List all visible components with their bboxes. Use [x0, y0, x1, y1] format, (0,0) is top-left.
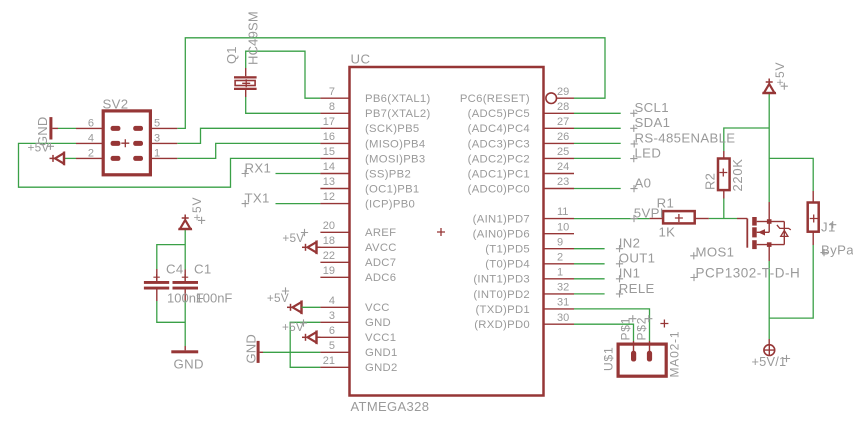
wire net RS-485ENABLE from IC pin26: [574, 142, 621, 144]
IC left pin 13 (OC1)PB1: [320, 188, 349, 190]
svg-text:2: 2: [557, 251, 563, 263]
svg-text:AVCC: AVCC: [365, 242, 397, 254]
svg-text:11: 11: [557, 206, 568, 218]
svg-text:SCL1: SCL1: [635, 100, 669, 115]
svg-text:(ADC1)PC1: (ADC1)PC1: [468, 168, 530, 180]
IC right pin 10 (AIN0)PD6: [544, 233, 575, 235]
svg-text:RELE: RELE: [619, 281, 655, 296]
svg-text:OUT1: OUT1: [619, 251, 656, 266]
svg-text:RS-485ENABLE: RS-485ENABLE: [635, 130, 736, 145]
svg-text:C1: C1: [194, 262, 212, 277]
svg-text:5: 5: [329, 340, 335, 352]
svg-text:ATMEGA328: ATMEGA328: [351, 399, 430, 414]
IC left pin 19 ADC6: [320, 276, 349, 278]
wire net MOSI: SV2 pin4 to IC pin15: [19, 143, 321, 187]
wire net IC pin31 to U$1 P$2: [574, 309, 650, 341]
supply +5V arrow (SV2 pin2): [50, 152, 65, 166]
svg-text:U$1: U$1: [602, 347, 616, 371]
node label 5VPI: [630, 206, 663, 223]
IC right pin 1 (INT1)PD3: [544, 278, 575, 280]
jumper J1 (bypass): [808, 191, 819, 245]
svg-text:ByPass: ByPass: [821, 243, 853, 258]
wire net OUT1 from IC pin2: [574, 263, 605, 265]
svg-text:(INT0)PD2: (INT0)PD2: [473, 289, 530, 301]
IC left pin 20 AREF: [320, 231, 349, 233]
wire net +5V branch to C4: [157, 245, 185, 269]
IC UC (ATMEGA328) body: [350, 67, 544, 396]
svg-text:22: 22: [323, 250, 335, 262]
svg-text:3: 3: [154, 133, 160, 145]
svg-text:1K: 1K: [659, 225, 676, 240]
svg-text:(ADC2)PC2: (ADC2)PC2: [468, 153, 530, 165]
svg-text:6: 6: [88, 118, 94, 130]
svg-text:SDA1: SDA1: [635, 115, 671, 130]
node label A0: [630, 175, 651, 192]
wire net R2 top to +5V: [724, 128, 769, 151]
svg-text:14: 14: [323, 161, 335, 173]
wire net TX1 label to IC pin12: [276, 203, 321, 205]
svg-text:(ADC4)PC4: (ADC4)PC4: [468, 123, 530, 135]
svg-text:GND: GND: [174, 357, 204, 372]
svg-text:(TXD)PD1: (TXD)PD1: [476, 304, 531, 316]
crystal Q1 plates: [234, 76, 257, 78]
svg-text:(MISO)PB4: (MISO)PB4: [365, 138, 425, 150]
svg-text:29: 29: [557, 86, 569, 98]
svg-text:(AIN0)PD6: (AIN0)PD6: [473, 229, 530, 241]
SV2 pin 3 (right): [150, 142, 177, 144]
connector U$1 body: [618, 344, 666, 376]
svg-text:4: 4: [329, 295, 335, 307]
U$1 pin P$1: [633, 341, 635, 351]
wire net 5VPI from IC pin11 to R1: [574, 218, 650, 220]
svg-text:7: 7: [329, 86, 335, 98]
U$1 pin P$2: [649, 341, 651, 351]
transistor MOS1 body connection with arrow: [757, 231, 770, 233]
wire net LED from IC pin25: [574, 157, 621, 159]
svg-text:1: 1: [557, 266, 563, 278]
IC left pin 21 GND2: [320, 366, 349, 368]
svg-text:P$1: P$1: [619, 317, 633, 341]
wire net RX1 label to IC pin14: [276, 173, 321, 175]
node label SCL1: [630, 100, 669, 117]
IC right pin 31 (TXD)PD1: [544, 308, 575, 310]
svg-text:21: 21: [323, 355, 335, 367]
wire net SCK: SV2 pin3 to IC pin17: [177, 128, 320, 143]
node label IN2: [616, 236, 640, 253]
supply +5V arrow (top right): [762, 79, 776, 94]
wire net SDA1 from IC pin27: [574, 127, 621, 129]
IC left pin 22 ADC7: [320, 261, 349, 263]
svg-text:1: 1: [154, 148, 160, 160]
svg-text:8: 8: [329, 101, 335, 113]
svg-text:9: 9: [557, 236, 563, 248]
svg-text:12: 12: [323, 191, 335, 203]
transistor MOS1 gate plate: [746, 219, 748, 248]
svg-text:19: 19: [323, 265, 335, 277]
transistor MOS1 channel bars: [752, 217, 757, 226]
node label RX1: [242, 160, 272, 177]
IC left pin 12 (ICP)PB0: [320, 203, 349, 205]
svg-text:32: 32: [557, 282, 569, 294]
IC origin cross: [437, 228, 445, 236]
svg-text:31: 31: [557, 297, 569, 309]
node label LED: [630, 145, 661, 162]
svg-text:(INT1)PD3: (INT1)PD3: [473, 274, 530, 286]
svg-text:(RXD)PD0: (RXD)PD0: [474, 319, 530, 331]
crystal Q1 origin cross: [242, 79, 250, 87]
svg-text:+5V/1: +5V/1: [752, 354, 787, 369]
capacitor C4: [144, 269, 169, 301]
IC right pin 11 (AIN1)PD7: [544, 218, 575, 220]
wire net XTAL1: crystal top to IC pin7: [246, 51, 321, 98]
svg-text:(T1)PD5: (T1)PD5: [485, 244, 530, 256]
svg-text:GND: GND: [365, 317, 391, 329]
wire net SCL1 from IC pin28: [574, 112, 621, 114]
svg-text:PB6(XTAL1): PB6(XTAL1): [365, 93, 431, 105]
node label IN1: [616, 266, 640, 283]
svg-text:R2: R2: [703, 173, 718, 190]
wire net R2 bottom to gate net: [723, 199, 725, 219]
ground GND at SV2 pin6 (rotated): [49, 117, 52, 139]
SV2 pin 1 (right): [150, 157, 177, 159]
SV2 pin 2 (left): [76, 157, 103, 159]
svg-text:6: 6: [329, 325, 335, 337]
supply +5V arrow (IC pin6 VCC1): [302, 331, 320, 345]
wire net +5V vertical to MOS1 drain: [768, 93, 770, 202]
svg-text:+5V: +5V: [28, 141, 50, 155]
svg-text:+5V: +5V: [282, 320, 304, 334]
IC right pin 26 (ADC3)PC3: [544, 142, 575, 144]
IC right pin 30 (RXD)PD0: [544, 323, 575, 325]
node label SDA1: [630, 115, 670, 132]
svg-text:13: 13: [323, 176, 335, 188]
svg-text:(ADC0)PC0: (ADC0)PC0: [468, 183, 530, 195]
svg-text:PCP1302-T-D-H: PCP1302-T-D-H: [696, 266, 801, 281]
crystal Q1 body box: [235, 81, 255, 86]
wire net MISO: SV2 pin1 to IC pin16: [177, 143, 320, 158]
IC right pin 27 (ADC4)PC4: [544, 127, 575, 129]
capacitor C1: [173, 270, 199, 301]
svg-text:MOS1: MOS1: [696, 245, 735, 260]
node label RS-485ENABLE: [631, 130, 736, 147]
transistor MOS1 source connection: [757, 244, 785, 246]
IC left pin 4 VCC: [320, 306, 349, 308]
wire net IC pin30 to U$1 P$1: [574, 324, 634, 341]
svg-text:J1: J1: [821, 220, 836, 235]
svg-text:C4: C4: [166, 262, 184, 277]
wire net +5V branch to J1 top: [769, 158, 813, 191]
wire net GND to IC pin5 GND1: [263, 351, 320, 353]
svg-text:(MOSI)PB3: (MOSI)PB3: [365, 153, 425, 165]
IC left pin 5 GND1: [320, 351, 349, 353]
IC right pin 25 (ADC2)PC2: [544, 157, 575, 159]
svg-text:27: 27: [557, 116, 569, 128]
IC left pin 6 VCC1: [317, 336, 350, 338]
wire net +5V to SV2 pin2: [64, 157, 76, 159]
svg-text:18: 18: [323, 235, 335, 247]
resistor R1: [650, 211, 709, 223]
svg-text:15: 15: [323, 146, 335, 158]
wire net J1 bottom to source net: [769, 245, 813, 318]
svg-text:P$2: P$2: [635, 317, 649, 341]
SV2 pin 4 (left): [76, 142, 103, 144]
supply +5V/1 circle symbol: [764, 339, 775, 356]
wire net GND below C4: [157, 301, 185, 322]
svg-text:SV2: SV2: [103, 97, 129, 112]
svg-text:16: 16: [323, 131, 335, 143]
IC left pin 7 PB6(XTAL1): [320, 97, 349, 99]
IC right pin 9 (T1)PD5: [544, 248, 575, 250]
svg-text:GND: GND: [244, 334, 259, 364]
svg-text:(ADC3)PC3: (ADC3)PC3: [468, 138, 530, 150]
supply +5V arrow (IC pin4 VCC): [287, 301, 302, 315]
IC left pin 3 GND: [320, 321, 349, 323]
wire net GND below C1: [184, 301, 186, 347]
svg-text:(SS)PB2: (SS)PB2: [365, 168, 411, 180]
svg-text:(OC1)PB1: (OC1)PB1: [365, 183, 420, 195]
wire net XTAL2: crystal bottom to IC pin8: [246, 97, 321, 113]
svg-text:(ICP)PB0: (ICP)PB0: [365, 199, 415, 211]
IC right pin 2 (T0)PD4: [544, 263, 575, 265]
IC right pin 24 (ADC1)PC1: [544, 173, 575, 175]
IC right pin 28 (ADC5)PC5: [544, 112, 575, 114]
svg-text:3: 3: [329, 310, 335, 322]
wire net MOS1 source to +5V/1: [768, 261, 770, 339]
svg-text:VCC1: VCC1: [365, 332, 396, 344]
SV2 pin 5 (right): [150, 127, 177, 129]
ground GND at IC pin5 (rotated): [257, 341, 260, 363]
svg-text:UC: UC: [351, 52, 371, 67]
svg-text:Q1: Q1: [224, 46, 239, 64]
svg-text:MA02-1: MA02-1: [668, 331, 682, 378]
svg-text:20: 20: [323, 220, 335, 232]
transistor MOS1 drain connection: [757, 221, 770, 223]
wire net IN2 from IC pin9: [574, 248, 605, 250]
svg-text:VCC: VCC: [365, 302, 390, 314]
svg-text:23: 23: [557, 176, 569, 188]
wire net A0 from IC pin23: [574, 188, 621, 190]
IC left pin 18 AVCC: [317, 246, 350, 248]
connector SV2 body: [103, 111, 150, 175]
svg-text:17: 17: [323, 116, 335, 128]
IC left pin 16 (MISO)PB4: [320, 142, 349, 144]
node label RELE: [616, 281, 655, 298]
svg-text:5: 5: [154, 118, 160, 130]
resistor R2: [718, 151, 730, 199]
svg-text:GND2: GND2: [365, 362, 398, 374]
U$1 origin cross: [660, 320, 668, 328]
wire net GND to SV2 pin6: [58, 127, 76, 129]
wire net IN1 from IC pin1: [574, 278, 605, 280]
svg-text:LED: LED: [635, 145, 662, 160]
IC left pin 8 PB7(XTAL2): [320, 112, 349, 114]
IC right pin 29 PC6(RESET): [546, 93, 557, 104]
svg-text:PC6(RESET): PC6(RESET): [460, 93, 530, 105]
wire net RESET: SV2 pin5 to IC pin29: [177, 38, 605, 129]
ground GND below C1/C4: [171, 350, 198, 353]
svg-text:ADC7: ADC7: [365, 257, 396, 269]
svg-text:2: 2: [88, 148, 94, 160]
svg-text:(AIN1)PD7: (AIN1)PD7: [473, 214, 530, 226]
svg-text:AREF: AREF: [365, 227, 396, 239]
svg-text:28: 28: [557, 101, 569, 113]
transistor MOS1 body diode: [769, 221, 784, 223]
IC right pin 32 (INT0)PD2: [544, 293, 575, 295]
svg-text:26: 26: [557, 131, 569, 143]
svg-text:24: 24: [557, 161, 569, 173]
svg-text:ADC6: ADC6: [365, 272, 396, 284]
node label OUT1: [616, 251, 655, 268]
wire net +5V vertical at capacitors: [184, 229, 186, 270]
svg-text:(ADC5)PC5: (ADC5)PC5: [468, 108, 530, 120]
supply +5V arrow (capacitors): [178, 215, 192, 230]
svg-text:4: 4: [88, 133, 94, 145]
IC right pin 23 (ADC0)PC0: [544, 188, 575, 190]
IC left pin 15 (MOSI)PB3: [320, 157, 349, 159]
svg-text:5VPI: 5VPI: [634, 206, 664, 221]
svg-text:30: 30: [557, 312, 569, 324]
svg-text:HC49SM: HC49SM: [246, 11, 261, 65]
wire +5V to pin4 stub: [303, 306, 320, 308]
SV2 pin 6 (left): [76, 127, 103, 129]
svg-text:25: 25: [557, 146, 569, 158]
svg-text:PB7(XTAL2): PB7(XTAL2): [365, 108, 431, 120]
svg-text:+5V: +5V: [773, 62, 787, 86]
wire net GND IC pin3 to pin21: [290, 322, 320, 367]
SV2 origin cross: [121, 139, 129, 147]
svg-text:220K: 220K: [730, 158, 745, 191]
node label TX1: [242, 191, 270, 208]
svg-text:(SCK)PB5: (SCK)PB5: [365, 123, 420, 135]
supply +5V arrow (IC pin18 AVCC): [302, 241, 320, 255]
IC left pin 17 (SCK)PB5: [320, 127, 349, 129]
svg-text:10: 10: [557, 221, 569, 233]
svg-text:GND1: GND1: [365, 347, 398, 359]
wire net R1 to MOS1 gate: [709, 218, 737, 220]
wire net RELE from IC pin32: [574, 293, 605, 295]
svg-text:100nF: 100nF: [196, 291, 233, 306]
svg-text:(T0)PD4: (T0)PD4: [485, 259, 530, 271]
transistor MOS1 gate lead: [737, 218, 747, 220]
crystal Q1 leads: [245, 68, 247, 76]
IC left pin 14 (SS)PB2: [320, 173, 349, 175]
